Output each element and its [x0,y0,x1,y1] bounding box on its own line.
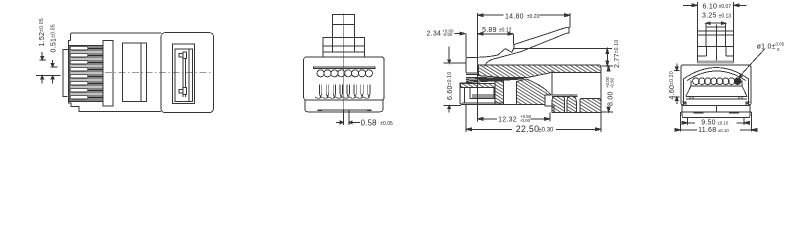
window [470,88,494,99]
flange sides [682,106,750,113]
ext line front-top [477,13,479,57]
dim text 1.52±0.05 [39,18,46,46]
extension ticks view1 [36,60,61,76]
tab divider [332,23,354,25]
step to flange [323,52,365,57]
wire circles [317,70,372,77]
svg-text:4.60±0.20: 4.60±0.20 [669,71,676,99]
front cap [466,58,478,75]
body rear outline [681,65,751,106]
9.50 ext lines [688,118,744,126]
dim arrows 0.51 [52,60,54,65]
latch upper curve [478,27,567,57]
hatch top wall [478,65,601,78]
trapezoid flares [686,86,747,97]
svg-text:±0.10: ±0.10 [717,120,729,125]
11.68 ext lines [680,112,751,132]
svg-text:5.89: 5.89 [482,27,497,34]
22.50 ext lines [466,105,601,132]
12.32 ext lines [478,57,550,121]
shelf lines [472,95,494,97]
wire hole filled [734,78,741,85]
teeth contact lines [88,48,104,97]
contact teeth block [69,46,105,102]
contact-zone bracket [63,49,68,96]
strain relief bar [123,43,147,101]
latch lower bar [514,47,612,49]
cavity [691,81,742,86]
svg-text:ø1.0±: ø1.0± [757,43,776,50]
svg-text:22.50: 22.50 [516,124,540,134]
11.68 dim [674,129,757,131]
svg-text:2.77±0.10: 2.77±0.10 [614,40,621,68]
svg-text:6.10: 6.10 [703,3,718,10]
0.58 dim arrows [336,121,341,123]
ext line latch tip [569,13,571,27]
crush rib lobe A [552,97,564,113]
wire holes [693,78,735,85]
inner lip [318,109,372,111]
6.60 arrows [448,47,450,62]
latch step [323,38,365,53]
6.60 text [447,72,454,100]
dim arrows 1.52 [41,52,43,58]
svg-text:3.25: 3.25 [702,13,717,20]
cavity back wall [551,71,553,95]
step lines [323,46,365,52]
dia 1.0 leader [741,49,765,76]
svg-text:±0.13: ±0.13 [719,13,732,19]
svg-text:2.34: 2.34 [427,31,442,38]
tab horizontals [697,27,733,46]
contact blades [466,77,524,82]
12.32 dim [483,118,545,120]
svg-text:±0.12: ±0.12 [499,27,512,33]
svg-text:1.52±0.05: 1.52±0.05 [39,18,46,46]
tab lower sides [697,46,733,63]
svg-text:12.32: 12.32 [498,116,517,123]
latch tip [566,27,569,33]
svg-text:±0.30: ±0.30 [538,127,554,133]
window right column [188,49,190,102]
bottom lip [681,111,751,113]
latch knob top [179,54,183,58]
crush bar top lines [552,95,578,97]
svg-text:-0.00: -0.00 [520,118,531,123]
6.60 ext ticks [444,63,467,105]
channel verticals [504,87,517,105]
svg-text:±0.10: ±0.10 [718,128,730,133]
svg-text:9.50: 9.50 [701,120,716,127]
ext lines top [697,2,733,46]
0.58 text [361,118,393,127]
svg-text:±0.20: ±0.20 [527,14,540,20]
inner left wall [464,88,466,103]
3.25 text [702,13,731,20]
teeth gap lines [71,52,104,94]
22.50 dim [471,128,598,130]
8.00 dim [608,67,610,112]
svg-text:6.60±0.10: 6.60±0.10 [447,72,454,100]
teeth bars [70,47,88,99]
9.50 dim [682,122,750,124]
svg-text:-0.50: -0.50 [442,32,453,37]
view1 centerline [105,71,212,73]
svg-text:-0.50: -0.50 [609,77,614,88]
contact slots [319,84,370,97]
crush rib lobe B [567,96,576,112]
4.60 text [669,71,676,99]
body window outer [173,44,195,104]
front lower face [460,83,466,104]
0.58 extension lines [343,110,349,125]
svg-text:11.68: 11.68 [698,127,716,134]
rear face [600,68,602,111]
body window inner [175,49,193,102]
bottom double lines [461,103,546,104]
floor hatch column [495,81,504,105]
svg-text:0.51±0.05: 0.51±0.05 [51,24,58,52]
dim text 0.51±0.05 [51,24,58,52]
latch lower curve [485,33,567,66]
svg-text:±0.07: ±0.07 [719,4,732,10]
base band [305,100,383,112]
band lines [686,96,747,99]
rear wall block [580,98,601,112]
dark dashes [693,112,739,114]
14.80 dim [481,14,567,16]
scallop line [315,97,370,98]
body (boot) [161,33,214,113]
tab center line [716,25,718,63]
tab shoulders [697,55,733,57]
4.60 arrows [676,64,678,69]
5.89 dim [483,33,508,35]
body center line [716,65,718,112]
gray band [697,61,733,64]
chamfer marks [682,102,686,105]
dia 1.0 text [757,42,785,52]
6.10 dim [683,4,692,6]
latch tab [332,15,354,38]
2.77 dim [606,49,608,66]
svg-text:0.58: 0.58 [361,118,377,127]
plug head outline [68,33,161,112]
latch shaft [183,52,185,97]
band ticks [690,96,742,99]
bar inner line [140,43,142,101]
svg-text:14.80: 14.80 [505,13,524,20]
bottom step [545,104,601,112]
inner side walls [683,79,748,106]
ramp hatched [517,79,551,104]
flange body [304,57,385,100]
4.60 ticks [674,70,680,97]
2.34 dim [427,28,454,37]
latch knob bottom [179,89,183,93]
center line lower [343,57,345,113]
top strip [314,67,376,69]
floor hatch band [461,84,496,88]
svg-text:8.00: 8.00 [608,91,615,106]
flange bottom [682,112,750,118]
center line upper [343,14,345,57]
3.25 dim [706,22,726,24]
arch arcs [683,68,748,79]
tab verticals [706,23,726,46]
svg-text:0.05: 0.05 [776,42,785,47]
center post [103,41,113,107]
svg-text:±0.05: ±0.05 [380,121,393,127]
